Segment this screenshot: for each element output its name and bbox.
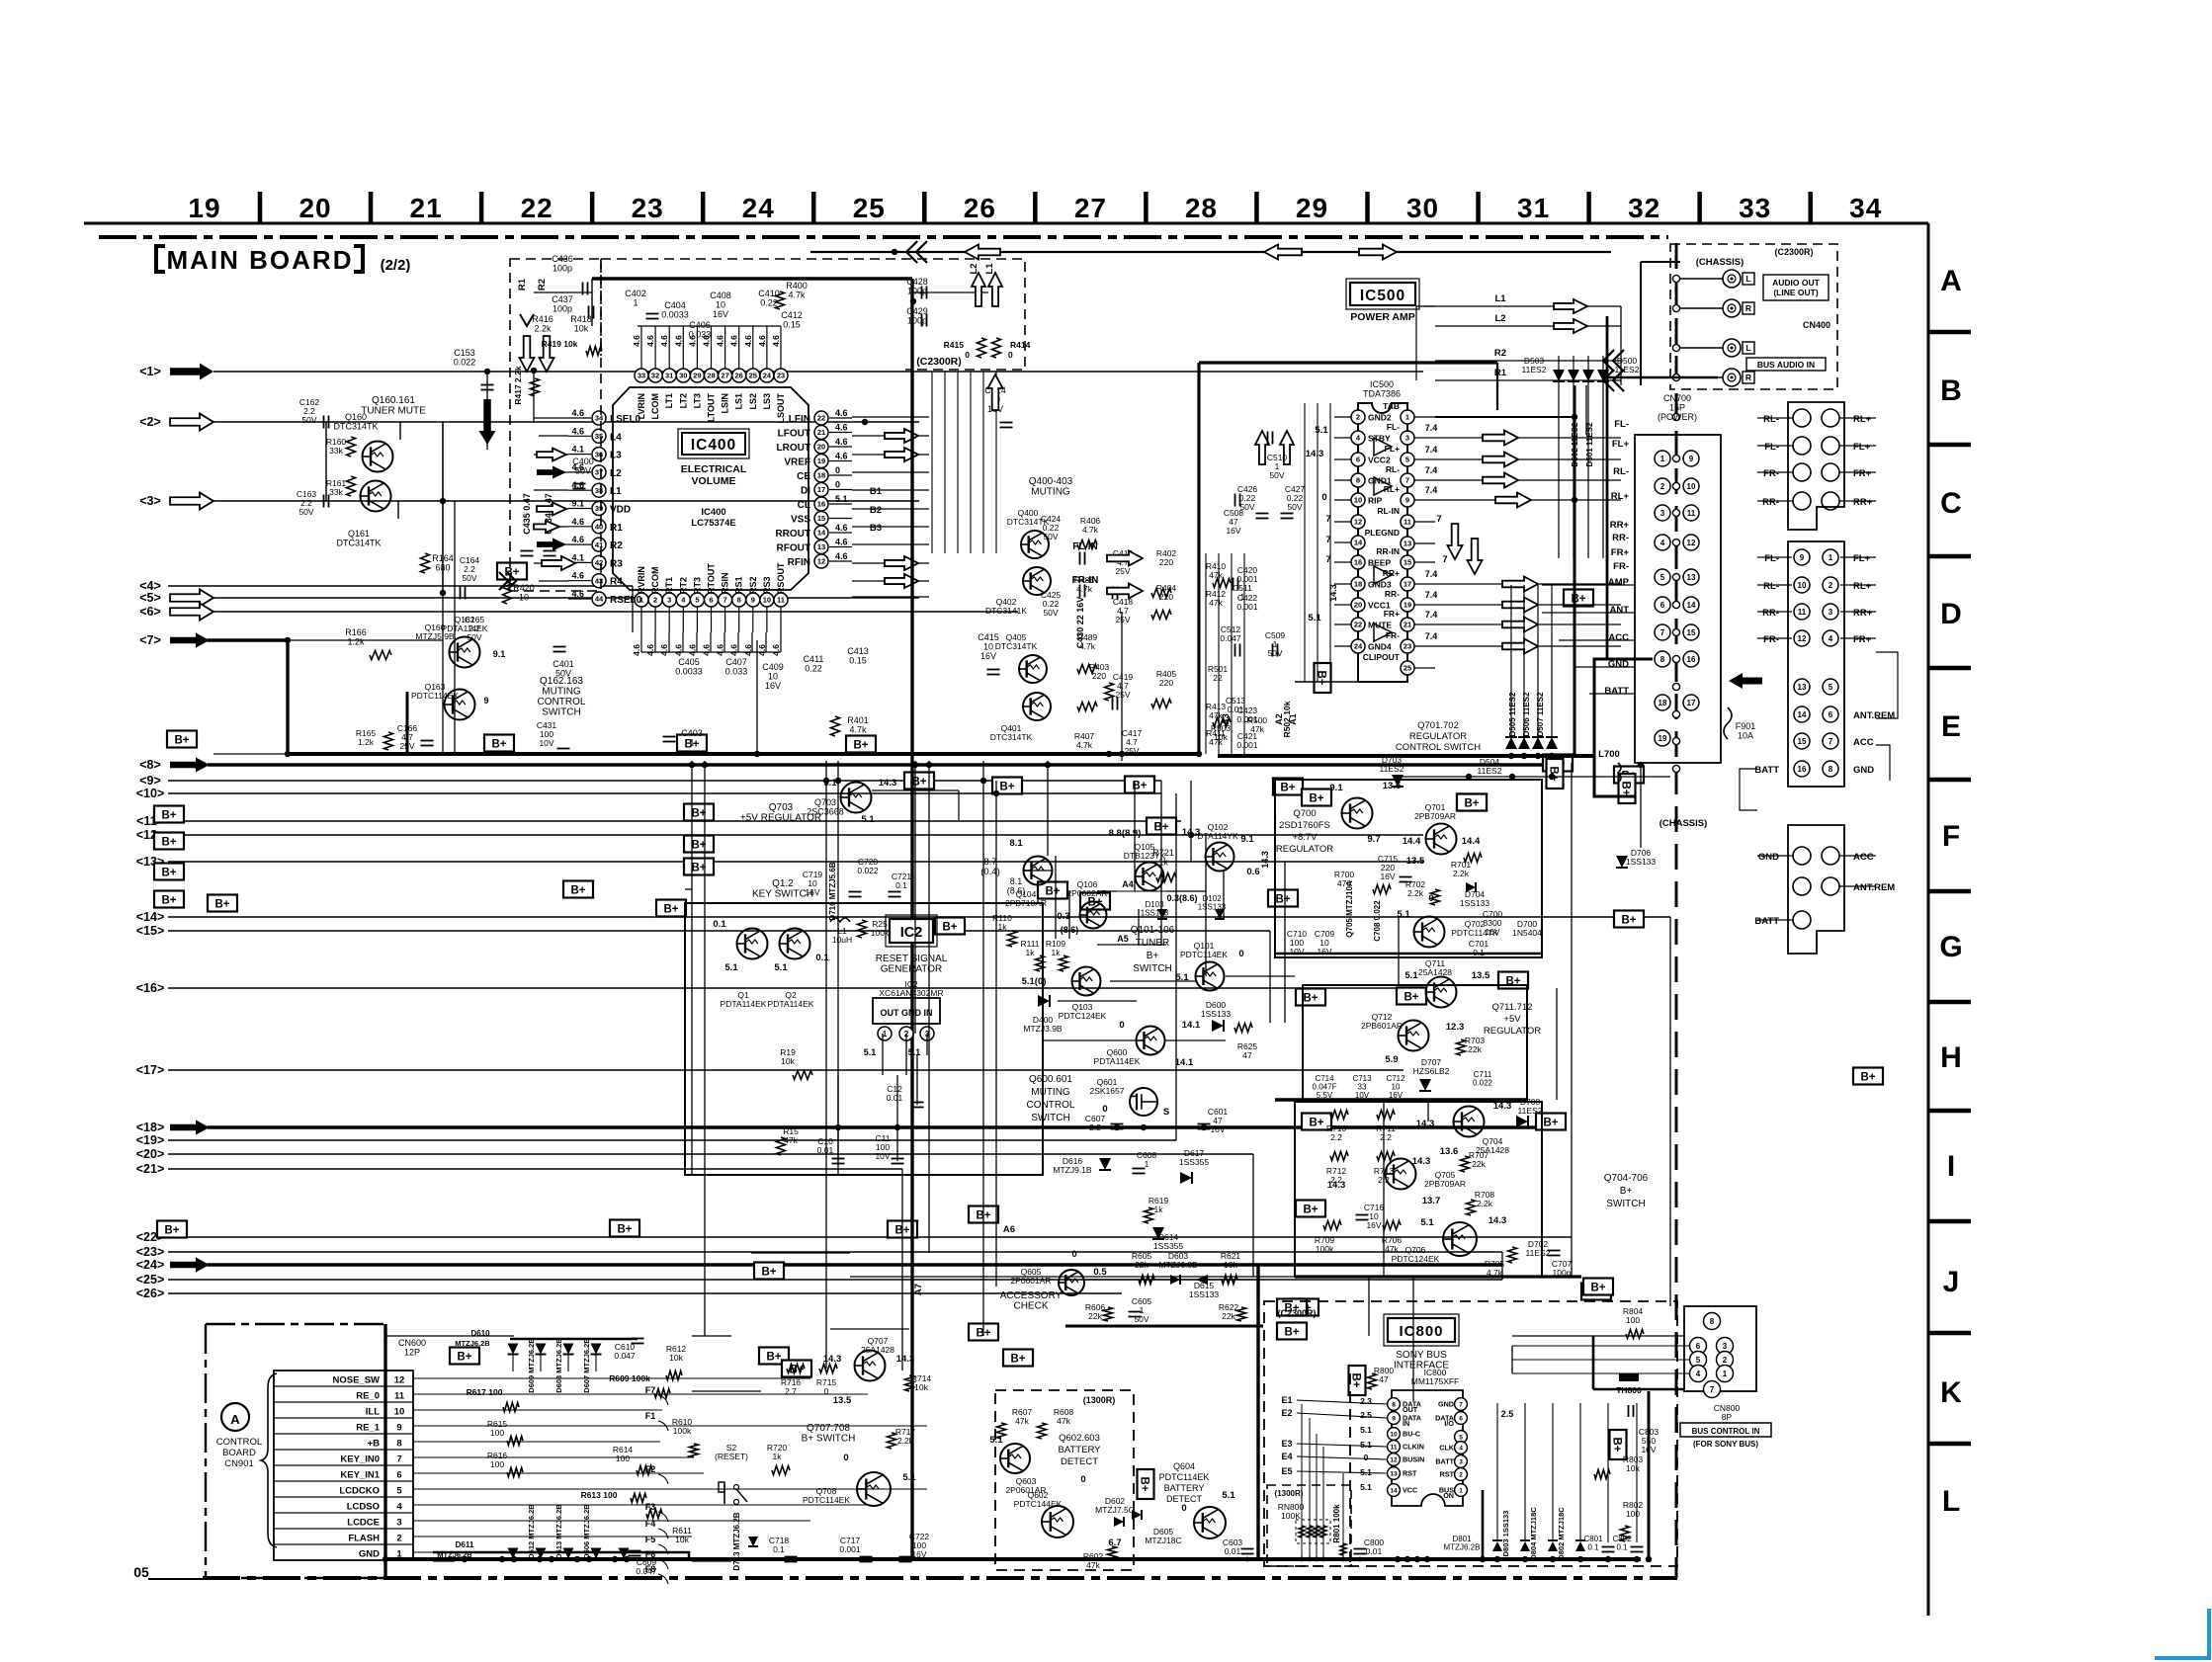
svg-text:B+: B+: [1309, 793, 1323, 805]
wire: [1669, 917, 1671, 1306]
svg-text:<10>: <10>: [136, 787, 165, 800]
wire: [1640, 765, 1642, 848]
wire: [1205, 835, 1207, 976]
svg-text:<15>: <15>: [136, 924, 165, 938]
svg-text:A4: A4: [1122, 879, 1134, 889]
svg-text:RFIN: RFIN: [788, 557, 810, 568]
transistor Q103: [1072, 967, 1101, 996]
svg-text:23: 23: [1404, 642, 1411, 651]
svg-text:5.1: 5.1: [989, 1435, 1003, 1446]
wire thick vertical cn800 down: [1648, 1391, 1651, 1559]
bus audio in box: [1746, 358, 1826, 371]
svg-text:CONTROL: CONTROL: [216, 1437, 262, 1448]
svg-text:C408: C408: [710, 291, 731, 300]
svg-text:C413: C413: [847, 646, 869, 656]
svg-text:B+: B+: [161, 810, 176, 822]
junction dots: [285, 637, 291, 643]
svg-text:D802 MTZJ18C: D802 MTZJ18C: [1557, 1507, 1566, 1560]
wire: [442, 639, 444, 641]
svg-text:L4: L4: [610, 432, 622, 443]
IC400 left pins 34-44: [592, 411, 606, 425]
svg-text:1: 1: [1829, 553, 1833, 562]
svg-text:5.1: 5.1: [1420, 1217, 1434, 1228]
svg-text:OUT: OUT: [1403, 1405, 1418, 1414]
svg-text:PDTC114EK: PDTC114EK: [1159, 1472, 1210, 1482]
svg-text:D612 MTZJ6.2B: D612 MTZJ6.2B: [527, 1504, 536, 1559]
svg-text:IC500: IC500: [1370, 379, 1394, 389]
svg-text:L1: L1: [1494, 293, 1506, 304]
svg-text:10k: 10k: [1224, 1260, 1237, 1270]
svg-text:13: 13: [1390, 1470, 1398, 1477]
wire: [928, 761, 930, 1253]
title MAIN BOARD (2/2): [154, 244, 165, 274]
svg-text:50V: 50V: [301, 415, 316, 425]
svg-text:RFOUT: RFOUT: [777, 543, 810, 554]
svg-text:D606 MTZJ6.2B: D606 MTZJ6.2B: [582, 1504, 591, 1559]
svg-text:<21>: <21>: [136, 1162, 165, 1176]
svg-text:FR+: FR+: [1384, 609, 1400, 619]
svg-text:220: 220: [1092, 671, 1106, 681]
svg-text:0: 0: [1080, 1474, 1085, 1485]
wires CN600 to diodes: [433, 1377, 810, 1379]
svg-text:C405: C405: [678, 657, 700, 667]
svg-text:RST: RST: [1403, 1469, 1417, 1478]
svg-text:14.1: 14.1: [1175, 1057, 1194, 1068]
svg-text:Q160.161: Q160.161: [372, 395, 415, 406]
svg-text:12.3: 12.3: [1446, 1022, 1465, 1033]
wire: [916, 1055, 918, 1105]
speaker connector block 2: [1788, 541, 1844, 787]
svg-text:19: 19: [1404, 601, 1411, 610]
wire: [692, 1390, 761, 1392]
svg-text:25A1428: 25A1428: [861, 1345, 894, 1355]
svg-text:R400: R400: [786, 281, 808, 291]
svg-text:RE_0: RE_0: [356, 1391, 380, 1402]
svg-text:D607 MTZJ6.2B: D607 MTZJ6.2B: [582, 1338, 591, 1393]
svg-text:IC2: IC2: [900, 925, 923, 941]
svg-text:DTC3141K: DTC3141K: [985, 606, 1027, 616]
svg-text:29: 29: [1296, 193, 1328, 223]
svg-text:10V: 10V: [1289, 947, 1304, 956]
svg-text:B+: B+: [766, 1352, 781, 1364]
svg-text:0.1: 0.1: [1587, 1543, 1599, 1552]
svg-text:B+: B+: [1309, 1118, 1323, 1129]
svg-text:0: 0: [1364, 1453, 1369, 1462]
svg-text:7.4: 7.4: [1425, 631, 1438, 641]
svg-text:23: 23: [777, 372, 785, 380]
svg-text:10: 10: [394, 1407, 405, 1418]
svg-text:2: 2: [1356, 413, 1360, 422]
svg-text:43: 43: [595, 576, 603, 585]
svg-text:(1300R): (1300R): [1275, 1489, 1304, 1498]
svg-text:RR+: RR+: [1610, 520, 1630, 531]
svg-text:1: 1: [1660, 455, 1665, 463]
svg-text:5.1: 5.1: [864, 1047, 877, 1057]
transistor Q600: [1137, 1027, 1165, 1055]
svg-text:47: 47: [1379, 1374, 1389, 1384]
svg-text:100k: 100k: [673, 1426, 692, 1436]
svg-text:FR+: FR+: [1611, 547, 1630, 558]
wires CN800: [1512, 1335, 1684, 1337]
svg-text:4.6: 4.6: [702, 644, 712, 656]
svg-text:1SS355: 1SS355: [1153, 1241, 1184, 1251]
svg-text:34: 34: [1849, 193, 1882, 223]
svg-text:2.2k: 2.2k: [897, 1436, 914, 1446]
svg-text:13.5: 13.5: [1406, 856, 1425, 867]
svg-text:10: 10: [716, 300, 725, 310]
svg-text:16: 16: [1687, 655, 1696, 664]
svg-text:R1: R1: [517, 278, 528, 291]
svg-text:B+: B+: [1543, 1118, 1558, 1129]
wire: [433, 1560, 455, 1562]
svg-text:G: G: [1939, 931, 1962, 963]
svg-text:0.01: 0.01: [1228, 705, 1244, 714]
wire: [692, 1560, 731, 1562]
svg-text:50V: 50V: [1134, 1314, 1149, 1324]
svg-text:35: 35: [595, 432, 603, 441]
svg-text:11: 11: [394, 1391, 405, 1402]
wires left of IC500: [1304, 403, 1306, 682]
svg-text:5.1: 5.1: [1360, 1482, 1372, 1492]
svg-text:MUTING: MUTING: [1031, 1087, 1070, 1098]
svg-text:C428: C428: [906, 277, 928, 287]
svg-text:ANT.REM: ANT.REM: [1853, 710, 1895, 721]
svg-text:RS3: RS3: [762, 576, 772, 594]
svg-text:47k: 47k: [784, 1135, 798, 1145]
svg-text:0.047: 0.047: [636, 1566, 657, 1576]
svg-text:RL-: RL-: [1763, 581, 1779, 592]
svg-text:25A1428: 25A1428: [1418, 967, 1452, 977]
svg-text:H: H: [1940, 1041, 1962, 1074]
CN700 pins 17 18 19: [1655, 695, 1670, 710]
svg-text:REGULATOR: REGULATOR: [1276, 844, 1333, 855]
svg-text:6: 6: [396, 1470, 401, 1481]
svg-text:DI: DI: [801, 486, 810, 497]
svg-text:S: S: [1163, 1107, 1169, 1118]
transistor Q702: [1414, 917, 1445, 948]
svg-text:PDTC124EK: PDTC124EK: [1059, 1011, 1107, 1021]
svg-text:5.1: 5.1: [774, 962, 788, 973]
svg-text:ON: ON: [1443, 1491, 1454, 1500]
svg-text:16V: 16V: [980, 651, 996, 661]
svg-text:22: 22: [1213, 673, 1223, 683]
svg-text:B+: B+: [1464, 798, 1479, 810]
solid box around key switch IC2: [685, 903, 1043, 1175]
svg-text:16V: 16V: [1485, 927, 1499, 937]
svg-text:IC400: IC400: [701, 507, 725, 518]
wire: [1501, 1252, 1503, 1280]
svg-text:22k: 22k: [1472, 1159, 1486, 1169]
svg-text:8: 8: [1392, 1401, 1396, 1408]
svg-text:0.033: 0.033: [689, 330, 712, 340]
svg-text:E2: E2: [1281, 1408, 1292, 1418]
svg-text:Q703: Q703: [769, 802, 794, 813]
svg-text:9.1: 9.1: [1240, 834, 1254, 845]
svg-text:1k: 1k: [998, 922, 1008, 932]
svg-text:CONTROL: CONTROL: [1027, 1100, 1075, 1111]
wire: [691, 761, 693, 1175]
svg-text:0.0033: 0.0033: [675, 667, 703, 677]
svg-text:220: 220: [1159, 592, 1173, 602]
svg-text:4.6: 4.6: [673, 335, 683, 347]
svg-text:4: 4: [396, 1502, 402, 1513]
svg-text:0.0033: 0.0033: [661, 310, 689, 320]
svg-text:F1: F1: [645, 1411, 656, 1421]
svg-text:16V: 16V: [805, 887, 819, 897]
svg-text:B+: B+: [1350, 1372, 1362, 1387]
dashed box C2300R top right: [1670, 244, 1837, 389]
svg-text:<17>: <17>: [136, 1063, 165, 1077]
solid box Q700 regulator: [1275, 780, 1542, 957]
solid down arrow: [479, 399, 496, 445]
svg-text:0.1: 0.1: [895, 880, 907, 890]
svg-text:2.2k: 2.2k: [534, 324, 552, 334]
svg-text:0.3: 0.3: [1057, 911, 1069, 922]
wire: [1252, 1154, 1254, 1277]
svg-text:F: F: [1942, 820, 1960, 853]
svg-text:RR-: RR-: [1612, 533, 1629, 543]
svg-text:B+: B+: [1316, 670, 1327, 685]
svg-text:9: 9: [1392, 1415, 1396, 1422]
svg-text:7: 7: [1829, 737, 1833, 746]
svg-text:9.1: 9.1: [1329, 783, 1343, 793]
svg-text:Q711.712: Q711.712: [1491, 1002, 1532, 1013]
svg-text:10: 10: [983, 642, 993, 652]
svg-text:BATTERY: BATTERY: [1059, 1445, 1102, 1455]
svg-text:RIP: RIP: [1368, 496, 1383, 506]
svg-text:14: 14: [1390, 1487, 1398, 1494]
svg-text:47k: 47k: [1385, 1244, 1399, 1254]
outline arrows mid: [885, 429, 918, 443]
svg-text:5.1: 5.1: [1360, 1425, 1372, 1435]
svg-text:6: 6: [1696, 1342, 1701, 1351]
svg-text:2SK1657: 2SK1657: [1090, 1086, 1125, 1096]
svg-text:4.1: 4.1: [571, 445, 584, 455]
svg-text:LCDSO: LCDSO: [347, 1502, 380, 1513]
svg-text:B+: B+: [491, 739, 506, 751]
right ruler ticks: [1928, 330, 1971, 335]
svg-text:R: R: [1745, 303, 1751, 313]
svg-text:4.6: 4.6: [835, 423, 848, 433]
wire: [638, 325, 641, 327]
svg-text:B+: B+: [1611, 1437, 1623, 1452]
svg-text:2.2: 2.2: [1089, 1122, 1101, 1132]
svg-text:11ES2: 11ES2: [1478, 766, 1502, 776]
svg-text:31: 31: [665, 372, 673, 380]
svg-text:18: 18: [1659, 699, 1667, 707]
svg-text:Q1.2: Q1.2: [772, 878, 794, 889]
svg-text:1.2k: 1.2k: [347, 637, 365, 647]
svg-text:10V: 10V: [539, 738, 553, 748]
svg-text:4.6: 4.6: [632, 644, 641, 656]
svg-text:R502 10k: R502 10k: [1282, 701, 1292, 737]
svg-text:4.6: 4.6: [687, 644, 697, 656]
wire: [1058, 1000, 1137, 1002]
svg-text:C429: C429: [906, 306, 928, 316]
svg-text:1: 1: [689, 738, 694, 748]
svg-text:1k: 1k: [1052, 948, 1062, 957]
svg-text:10: 10: [1798, 581, 1807, 590]
svg-text:ACCESSORY: ACCESSORY: [1000, 1290, 1063, 1301]
svg-text:220: 220: [1159, 557, 1173, 567]
svg-text:LC75374E: LC75374E: [691, 518, 735, 529]
solid box Q711 regulator: [1303, 985, 1527, 1100]
svg-text:PDTC114EK: PDTC114EK: [411, 691, 459, 701]
svg-text:22: 22: [521, 193, 553, 223]
svg-text:LT3: LT3: [692, 393, 702, 408]
svg-text:MTZJ9.1B: MTZJ9.1B: [1053, 1165, 1092, 1175]
svg-text:16V: 16V: [765, 681, 781, 691]
wire: [454, 501, 456, 754]
svg-text:ANT: ANT: [1609, 605, 1629, 616]
svg-text:13.5: 13.5: [1472, 970, 1490, 981]
svg-text:R2: R2: [1494, 348, 1506, 359]
svg-text:5.1: 5.1: [835, 494, 848, 504]
svg-text:25V: 25V: [1115, 566, 1130, 576]
svg-text:IC400: IC400: [691, 437, 736, 454]
svg-text:A: A: [230, 1412, 240, 1427]
svg-text:4.6: 4.6: [645, 644, 655, 656]
chevron arrows top: [916, 241, 927, 263]
wire: [1541, 780, 1543, 954]
svg-text:2.5: 2.5: [1360, 1410, 1372, 1420]
svg-text:27: 27: [1074, 193, 1107, 223]
svg-text:4.6: 4.6: [835, 437, 848, 447]
IC800 label box: [1388, 1318, 1455, 1342]
svg-text:RSEL0: RSEL0: [610, 595, 642, 606]
svg-text:100: 100: [490, 1459, 504, 1469]
svg-text:LS1: LS1: [734, 393, 744, 410]
svg-text:4: 4: [1829, 634, 1833, 643]
svg-text:LT2: LT2: [678, 393, 688, 408]
svg-text:FL+: FL+: [1853, 553, 1871, 564]
solid box Q704-706: [1295, 1102, 1542, 1277]
svg-text:1: 1: [1405, 413, 1409, 422]
svg-text:15: 15: [1798, 737, 1807, 746]
svg-text:16: 16: [817, 500, 825, 509]
wire: [1097, 890, 1117, 892]
transistor Q700: [1342, 798, 1373, 829]
svg-text:C435 0.47: C435 0.47: [522, 493, 532, 535]
right vertical dashed border C2300R: [1675, 243, 1678, 1578]
svg-text:14: 14: [1798, 710, 1807, 719]
svg-text:13: 13: [1798, 683, 1807, 692]
svg-text:R414: R414: [1010, 340, 1031, 350]
svg-text:<9>: <9>: [139, 774, 161, 788]
R25: [858, 920, 867, 938]
svg-text:VCC2: VCC2: [1368, 456, 1391, 465]
svg-text:5.1: 5.1: [861, 814, 875, 825]
svg-text:47k: 47k: [1209, 570, 1223, 580]
svg-text:2SD1760FS: 2SD1760FS: [1279, 820, 1330, 831]
svg-text:B+: B+: [1139, 1476, 1150, 1491]
svg-text:7.4: 7.4: [1425, 423, 1438, 433]
svg-text:MUTING: MUTING: [542, 687, 581, 698]
svg-text:1SS355: 1SS355: [1179, 1157, 1210, 1167]
svg-text:4.6: 4.6: [835, 408, 848, 418]
svg-text:ACC: ACC: [1853, 852, 1874, 863]
svg-text:LSEL0: LSEL0: [610, 414, 641, 425]
svg-text:16P: 16P: [1669, 403, 1685, 413]
svg-text:D507 11ES2: D507 11ES2: [1536, 692, 1545, 736]
svg-text:L: L: [1942, 1485, 1960, 1518]
svg-text:B+: B+: [1010, 1354, 1025, 1366]
svg-text:50V: 50V: [1269, 470, 1284, 480]
svg-text:7.4: 7.4: [1425, 569, 1438, 579]
top ruler line: [84, 222, 1928, 225]
svg-text:B+: B+: [663, 904, 678, 916]
svg-text:BATT: BATT: [1435, 1457, 1454, 1466]
wire: [1121, 612, 1123, 761]
top ruler tick separators: [258, 192, 263, 223]
svg-text:C403: C403: [681, 728, 703, 738]
svg-text:14.3: 14.3: [1260, 851, 1270, 869]
svg-text:5.9: 5.9: [1385, 1054, 1398, 1065]
svg-text:<6>: <6>: [139, 605, 161, 619]
svg-text:3: 3: [1459, 1458, 1463, 1465]
svg-text:PLEGND: PLEGND: [1365, 528, 1400, 538]
svg-text:B+: B+: [1280, 783, 1295, 794]
wire: [1043, 1039, 1137, 1041]
heavy wire y367: [1199, 361, 1497, 364]
svg-text:IC500: IC500: [1360, 288, 1405, 304]
svg-text:RT1: RT1: [664, 577, 674, 594]
svg-text:28: 28: [1185, 193, 1218, 223]
transistor Q705: [1386, 1159, 1416, 1190]
svg-text:B+: B+: [911, 777, 926, 789]
svg-text:47k: 47k: [1209, 598, 1223, 608]
wire: [1110, 980, 1196, 982]
svg-text:SWITCH: SWITCH: [542, 707, 580, 718]
up arrows near L1 L2: [972, 273, 985, 306]
wires to RCA jacks: [1680, 278, 1723, 280]
svg-text:5.1: 5.1: [908, 1047, 921, 1057]
svg-text:D609 MTZJ6.2B: D609 MTZJ6.2B: [527, 1338, 536, 1393]
svg-text:RL-: RL-: [1386, 464, 1400, 474]
wire: [751, 1252, 850, 1254]
svg-text:4.6: 4.6: [571, 517, 584, 527]
svg-text:9: 9: [1800, 553, 1805, 562]
IC800 right pins: [1455, 1398, 1468, 1411]
transistor Q101: [1196, 962, 1225, 991]
arrow glyphs feeding left pins: [537, 449, 566, 461]
svg-text:B+: B+: [161, 868, 176, 879]
R166: [370, 651, 391, 660]
svg-text:MUTING: MUTING: [1031, 487, 1070, 498]
down arrows plegnd: [1448, 524, 1463, 559]
svg-text:100p: 100p: [907, 287, 927, 296]
svg-text:14.4: 14.4: [1403, 836, 1421, 847]
svg-text:B+: B+: [942, 922, 957, 934]
wire: [442, 422, 444, 754]
wire B+ feed line: [1400, 776, 1670, 778]
speaker connector block 3: [1788, 825, 1844, 954]
svg-text:B+: B+: [1620, 1186, 1633, 1197]
svg-text:CN901: CN901: [224, 1458, 254, 1469]
svg-text:CE: CE: [797, 471, 810, 482]
svg-text:3: 3: [1723, 1342, 1728, 1351]
svg-text:I/O: I/O: [1444, 1419, 1454, 1428]
svg-text:10k: 10k: [669, 1353, 683, 1363]
diode row D504-D507 pointing up: [1505, 737, 1517, 749]
svg-text:Q162.163: Q162.163: [540, 676, 583, 687]
wire: [1175, 793, 1177, 1140]
svg-text:1.2k: 1.2k: [358, 737, 375, 747]
svg-text:24: 24: [1354, 642, 1363, 651]
svg-text:9: 9: [1689, 455, 1694, 463]
capacitor C402: [646, 313, 659, 315]
svg-text:C153: C153: [454, 348, 475, 358]
